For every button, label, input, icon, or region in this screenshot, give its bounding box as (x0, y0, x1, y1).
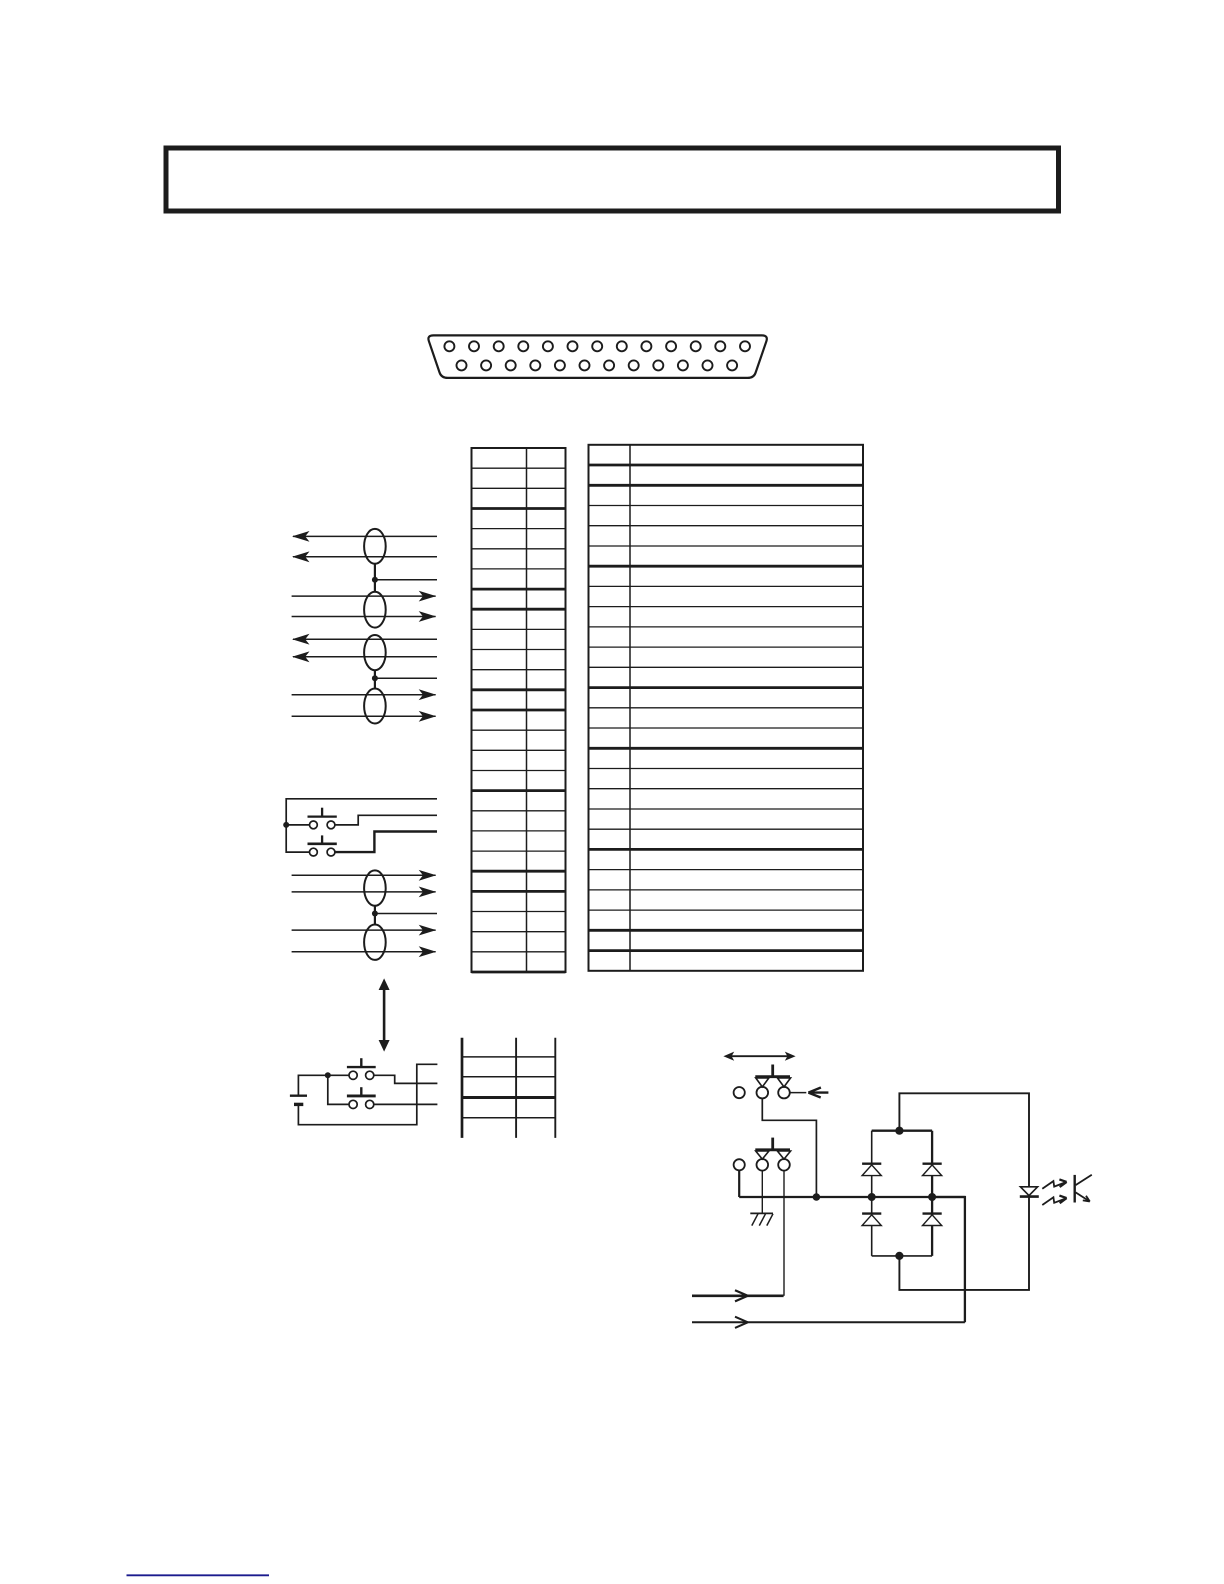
diode D4 (bridge lower-right) (923, 1214, 942, 1226)
wire S1 to table (335, 815, 437, 825)
wire pair 3 (arrows left) (292, 634, 437, 662)
shield link wire and node (pair3/pair4) (372, 670, 437, 689)
wire pair 1 (received data, arrows left) (292, 531, 437, 562)
chassis ground (750, 1213, 773, 1225)
connector pin 16 (506, 360, 516, 370)
connector pin 13 (740, 341, 750, 351)
connector J1 DB-25 shell (428, 335, 766, 378)
twisted pair shield ellipse 5 (364, 870, 386, 905)
wire LED to bridge bottom (899, 1197, 1029, 1290)
bidirectional arrow (table link) (379, 978, 390, 1051)
twisted pair shield ellipse 1 (364, 529, 386, 564)
node bridge DC bottom (895, 1252, 903, 1260)
connector pin 1 (444, 341, 454, 351)
connector pin 18 (555, 360, 565, 370)
connector pin 4 (518, 341, 528, 351)
wire bridge AC right to input line (932, 1197, 965, 1322)
switch S3 (push contact) (347, 1058, 376, 1079)
connector pin 7 (592, 341, 602, 351)
wire battery return loop (298, 1064, 437, 1124)
diode D2 (bridge lower-left) (862, 1214, 881, 1226)
node bridge AC left (868, 1193, 876, 1201)
connector pin 22 (653, 360, 663, 370)
twisted pair shield ellipse 4 (364, 689, 386, 724)
twisted pair shield ellipse 3 (364, 635, 386, 670)
battery BT1 positive plate (290, 1095, 307, 1097)
diode D3 (bridge upper-right) (923, 1164, 942, 1176)
connector pin 11 (691, 341, 701, 351)
bidirectional arrow (horizontal) (723, 1052, 795, 1061)
wire pair 2 (transmit data, arrows right) (292, 591, 437, 622)
arrow into SW-A contact (790, 1088, 829, 1098)
node bridge AC right (928, 1193, 936, 1201)
LED of optocoupler PC1 (1020, 1187, 1039, 1197)
input wire 2 (arrow right) (692, 1317, 965, 1328)
connector pin 14 (457, 360, 467, 370)
hyperlink underline (127, 1574, 270, 1576)
wire S2 to table (bold) (335, 832, 437, 853)
bus wire to bridge (739, 1196, 965, 1198)
twisted pair shield ellipse 6 (364, 925, 386, 960)
wire bridge top to LED (899, 1093, 1029, 1186)
wire pair 4 (arrows right) (292, 689, 437, 721)
mode table (3 cols, middle rule bold) (462, 1038, 555, 1138)
shield link wire and node (pair1/pair2) (372, 564, 437, 592)
signal description table (right, 2 cols x 26 rows) (589, 445, 864, 971)
wire pair 5 (arrows right) (292, 870, 437, 897)
connector pin 12 (715, 341, 725, 351)
connector pin 2 (469, 341, 479, 351)
switch S4 (push contact) (347, 1087, 376, 1108)
switch S1 (normally-open contact) (308, 808, 337, 829)
title box (empty heading frame) (166, 148, 1059, 211)
connector pin 20 (604, 360, 614, 370)
battery BT1 negative plate (294, 1103, 303, 1106)
diode bridge frame wires (872, 1131, 932, 1256)
connector pin 21 (629, 360, 639, 370)
connector pin 23 (678, 360, 688, 370)
connector pin 25 (727, 360, 737, 370)
connector pin 15 (481, 360, 491, 370)
node junction SW-A pole / bus (813, 1193, 821, 1201)
wire S3 output (374, 1075, 438, 1083)
connector pin 9 (641, 341, 651, 351)
connector pin 6 (568, 341, 578, 351)
switch S2 (normally-open contact) (308, 835, 337, 856)
shield link wire and node (pair5/pair6) (372, 906, 437, 925)
node bridge DC top (895, 1127, 903, 1135)
connector pin 19 (580, 360, 590, 370)
twisted pair shield ellipse 2 (364, 592, 386, 628)
wire node to switch S4 (328, 1078, 349, 1104)
wire SW-B pole to ground (761, 1170, 763, 1213)
node junction battery/switches (325, 1072, 331, 1078)
connector pin 24 (703, 360, 713, 370)
phototransistor Q1 of optocoupler (1075, 1175, 1092, 1203)
optocoupler light arrow 2 (1042, 1196, 1066, 1205)
wire node to switch S1 (286, 824, 309, 826)
node junction at common (283, 822, 289, 828)
jack switch SW-A (line select, upper) (734, 1065, 791, 1099)
wire SW-B contact down to input line (783, 1170, 785, 1295)
wire node to switch S3 (328, 1074, 349, 1076)
wire S4 output (374, 1103, 438, 1105)
diode D1 (bridge upper-left) (862, 1164, 881, 1176)
connector pin 5 (543, 341, 553, 351)
wire SW-A pole down to bus node (762, 1098, 816, 1197)
jack switch SW-B (line select, lower) (734, 1138, 791, 1171)
wire SW-B lone contact to bus (738, 1170, 740, 1197)
input wire 1 (arrow right) (692, 1290, 784, 1301)
optocoupler light arrow 1 (1042, 1179, 1066, 1188)
wire common bus to switches (286, 799, 437, 852)
wire pair 6 (arrows right) (292, 925, 437, 957)
connector pin 10 (666, 341, 676, 351)
connector pin 8 (617, 341, 627, 351)
connector pin 3 (494, 341, 504, 351)
pin number table (left, 2 cols x 26 rows) (472, 448, 566, 972)
connector pin 17 (530, 360, 540, 370)
wire battery to node (298, 1075, 327, 1095)
